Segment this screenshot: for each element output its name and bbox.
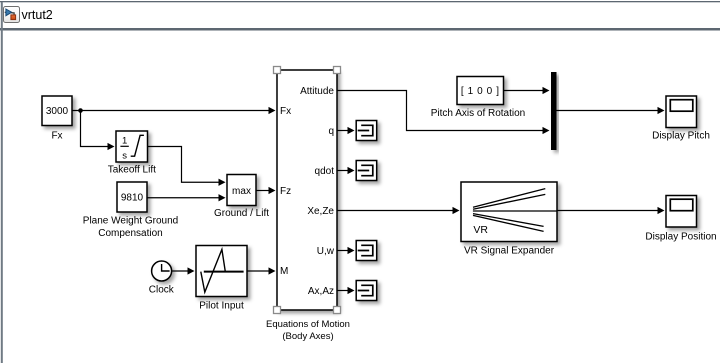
wire U,w -> Terminator3 bbox=[337, 247, 355, 254]
constant block 3000 (Fx) bbox=[42, 96, 72, 126]
svg-text:9810: 9810 bbox=[121, 193, 144, 204]
wire Clock -> Pilot Input bbox=[172, 267, 195, 274]
svg-text:Ax,Az: Ax,Az bbox=[308, 286, 334, 297]
svg-text:Takeoff Lift: Takeoff Lift bbox=[108, 165, 156, 176]
svg-text:(Body Axes): (Body Axes) bbox=[282, 331, 333, 342]
svg-text:Display Pitch: Display Pitch bbox=[652, 131, 710, 142]
svg-text:VR Signal Expander: VR Signal Expander bbox=[464, 245, 555, 256]
scope block Display Pitch bbox=[666, 96, 697, 128]
model icon button bbox=[4, 7, 20, 23]
svg-text:Fx: Fx bbox=[51, 130, 62, 141]
svg-text:Fx: Fx bbox=[280, 106, 291, 117]
wire Pilot Input -> M bbox=[247, 267, 276, 274]
selection handle top-left bbox=[274, 67, 281, 74]
mux bar bbox=[551, 72, 557, 150]
svg-text:Compensation: Compensation bbox=[98, 228, 162, 239]
wire Xe,Ze -> VR Signal Expander bbox=[337, 207, 460, 214]
selection handle top-right bbox=[334, 67, 341, 74]
label Pilot Input bbox=[199, 300, 244, 311]
svg-text:Plane Weight Ground: Plane Weight Ground bbox=[83, 216, 178, 227]
clock block bbox=[152, 261, 172, 281]
svg-text:U,w: U,w bbox=[317, 246, 335, 257]
svg-text:1: 1 bbox=[122, 136, 127, 147]
terminator block 1 (q) bbox=[356, 121, 377, 141]
label Plane Weight Ground Compensation bbox=[83, 216, 178, 239]
label Fx bbox=[51, 130, 62, 141]
tab title vrtut2 bbox=[22, 8, 53, 22]
svg-text:vrtut2: vrtut2 bbox=[22, 8, 53, 22]
wire Pitch Axis of Rotation -> Mux in1 bbox=[504, 87, 550, 94]
wire Attitude -> Mux in2 bbox=[337, 91, 550, 135]
tab bar background bbox=[0, 0, 720, 28]
svg-text:Fz: Fz bbox=[280, 186, 291, 197]
wire Ax,Az -> Terminator4 bbox=[337, 287, 355, 294]
minmax block max (Ground / Lift) bbox=[227, 175, 256, 206]
svg-text:Pitch Axis of Rotation: Pitch Axis of Rotation bbox=[431, 108, 526, 119]
expander block VR Signal Expander bbox=[461, 182, 557, 242]
selection handle bottom-right bbox=[334, 307, 341, 314]
terminator block 2 (qdot) bbox=[356, 161, 377, 181]
wire 9810 -> Ground/Lift in2 bbox=[147, 194, 226, 201]
svg-text:Ground / Lift: Ground / Lift bbox=[214, 208, 269, 219]
label Equations of Motion (Body Axes) bbox=[266, 319, 350, 342]
svg-text:3000: 3000 bbox=[46, 106, 69, 117]
wire qdot -> Terminator2 bbox=[337, 167, 355, 174]
wire Ground/Lift -> Fz bbox=[256, 187, 276, 194]
svg-text:max: max bbox=[232, 186, 251, 197]
svg-text:Xe,Ze: Xe,Ze bbox=[307, 206, 334, 217]
label Display Position bbox=[645, 232, 716, 243]
wire Takeoff Lift -> Ground/Lift in1 bbox=[148, 147, 226, 186]
left border of canvas bbox=[1, 2, 3, 363]
svg-text:qdot: qdot bbox=[315, 166, 335, 177]
separator under tab bar bbox=[0, 28, 720, 31]
label Ground / Lift bbox=[214, 208, 269, 219]
svg-text:s: s bbox=[122, 151, 127, 162]
wire 3000 -> Fx bbox=[72, 107, 276, 114]
terminator block 3 (U,w) bbox=[356, 241, 377, 261]
svg-text:Attitude: Attitude bbox=[300, 86, 334, 97]
label VR Signal Expander bbox=[464, 245, 555, 256]
wire Mux -> Display Pitch bbox=[557, 107, 665, 114]
constant block 9810 bbox=[117, 182, 147, 212]
svg-text:VR: VR bbox=[473, 224, 488, 236]
label Takeoff Lift bbox=[108, 165, 156, 176]
svg-text:M: M bbox=[280, 266, 288, 277]
svg-text:[ 1 0 0 ]: [ 1 0 0 ] bbox=[461, 86, 500, 97]
junction dot on Fx wire bbox=[78, 108, 83, 113]
label Display Pitch bbox=[652, 131, 710, 142]
wire q -> Terminator1 bbox=[337, 127, 355, 134]
integrator block Takeoff Lift bbox=[116, 131, 148, 162]
terminator block 4 (Ax,Az) bbox=[356, 281, 377, 301]
label Pitch Axis of Rotation bbox=[431, 108, 526, 119]
svg-text:Pilot Input: Pilot Input bbox=[199, 300, 244, 311]
wire branch -> Takeoff Lift bbox=[81, 111, 115, 151]
svg-text:Equations of Motion: Equations of Motion bbox=[266, 319, 350, 330]
scope block Display Position bbox=[666, 196, 697, 228]
svg-text:Clock: Clock bbox=[149, 285, 175, 296]
top border line bbox=[0, 1, 720, 2]
svg-text:q: q bbox=[328, 126, 334, 137]
svg-text:Display Position: Display Position bbox=[645, 232, 716, 243]
signal block Pilot Input bbox=[196, 246, 247, 297]
selection handle bottom-left bbox=[274, 307, 281, 314]
wire VR Signal Expander -> Display Position bbox=[557, 207, 665, 214]
constant block [ 1 0 0 ] (Pitch Axis of Rotation) bbox=[457, 77, 504, 105]
subsystem block Equations of Motion bbox=[277, 70, 337, 310]
label Clock bbox=[149, 285, 175, 296]
